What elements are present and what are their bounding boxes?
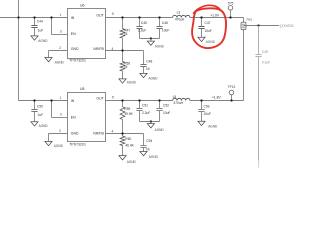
- svg-text:1: 1: [60, 96, 62, 100]
- svg-text:TPS73201: TPS73201: [69, 59, 86, 63]
- svg-text:10uF: 10uF: [204, 112, 211, 116]
- svg-text:NI: NI: [146, 148, 149, 152]
- svg-text:C50: C50: [37, 105, 43, 109]
- svg-text:EN: EN: [71, 115, 76, 119]
- svg-text:3: 3: [60, 29, 62, 33]
- svg-text:2: 2: [59, 46, 61, 50]
- svg-text:46.4K: 46.4K: [125, 144, 134, 148]
- svg-text:3: 3: [60, 112, 62, 116]
- svg-text:GND: GND: [71, 132, 79, 136]
- svg-text:U6: U6: [80, 4, 85, 8]
- svg-text:OUT: OUT: [96, 96, 104, 100]
- svg-text:470uH: 470uH: [174, 101, 184, 105]
- svg-text:OUT: OUT: [96, 13, 104, 17]
- svg-text:NI: NI: [124, 32, 127, 36]
- svg-text:C53: C53: [204, 104, 210, 108]
- svg-text:AGND: AGND: [54, 144, 64, 148]
- svg-text:AGND: AGND: [206, 40, 216, 44]
- svg-text:10uF: 10uF: [205, 29, 212, 33]
- svg-text:AGND: AGND: [208, 124, 218, 128]
- svg-text:NR/FB: NR/FB: [93, 47, 104, 51]
- svg-text:4: 4: [112, 129, 114, 133]
- svg-text:470uH: 470uH: [175, 18, 185, 22]
- svg-text:NI: NI: [124, 65, 127, 69]
- svg-text:AGND: AGND: [39, 124, 49, 128]
- svg-text:AGND: AGND: [127, 80, 137, 84]
- svg-text:L5: L5: [173, 95, 177, 99]
- svg-text:FB2: FB2: [247, 17, 253, 21]
- svg-text:1uF: 1uF: [38, 113, 44, 117]
- svg-text:+1.8V: +1.8V: [212, 96, 222, 100]
- svg-text:10uF: 10uF: [162, 29, 169, 33]
- svg-text:0.1uF: 0.1uF: [262, 60, 270, 64]
- svg-text:2: 2: [59, 129, 61, 133]
- svg-text:AGND: AGND: [155, 128, 165, 132]
- svg-text:1uF: 1uF: [38, 29, 44, 33]
- svg-text:2.2uF: 2.2uF: [142, 111, 150, 115]
- svg-text:R59: R59: [124, 107, 130, 111]
- svg-text:AGND: AGND: [55, 61, 65, 65]
- svg-text:NI: NI: [146, 67, 149, 71]
- svg-text:C54: C54: [146, 139, 152, 143]
- svg-text:AGND: AGND: [38, 39, 48, 43]
- svg-text:1: 1: [60, 13, 62, 17]
- svg-text:C46: C46: [162, 21, 168, 25]
- svg-text:AGND: AGND: [127, 160, 137, 164]
- svg-text:NR/FB: NR/FB: [93, 132, 104, 136]
- svg-text:C48: C48: [146, 59, 152, 63]
- svg-text:[1XVDD: [1XVDD: [280, 24, 294, 28]
- svg-text:49.9K: 49.9K: [124, 112, 133, 116]
- svg-text:C45: C45: [141, 21, 147, 25]
- svg-text:TP13: TP13: [228, 85, 236, 89]
- svg-text:C49: C49: [262, 50, 268, 54]
- svg-text:L3: L3: [177, 11, 181, 15]
- svg-text:R60: R60: [125, 137, 131, 141]
- svg-text:+1.0V: +1.0V: [210, 13, 220, 17]
- svg-text:IN: IN: [71, 99, 75, 103]
- svg-text:10uF: 10uF: [163, 111, 170, 115]
- svg-text:AGND: AGND: [149, 77, 159, 81]
- svg-text:5: 5: [112, 95, 114, 99]
- svg-text:5: 5: [112, 12, 114, 16]
- svg-text:C44: C44: [37, 20, 43, 24]
- svg-text:U8: U8: [80, 87, 85, 91]
- svg-text:TP5: TP5: [228, 1, 234, 5]
- svg-text:C52: C52: [163, 104, 169, 108]
- svg-text:2.2uF: 2.2uF: [138, 29, 146, 33]
- svg-text:AGND: AGND: [155, 44, 165, 48]
- svg-text:TPS73201: TPS73201: [69, 142, 86, 146]
- svg-text:IN: IN: [71, 16, 75, 20]
- svg-text:C51: C51: [142, 104, 148, 108]
- svg-text:EN: EN: [71, 32, 76, 36]
- svg-text:AGND: AGND: [149, 155, 159, 159]
- svg-text:C47: C47: [205, 21, 211, 25]
- svg-text:GND: GND: [71, 47, 79, 51]
